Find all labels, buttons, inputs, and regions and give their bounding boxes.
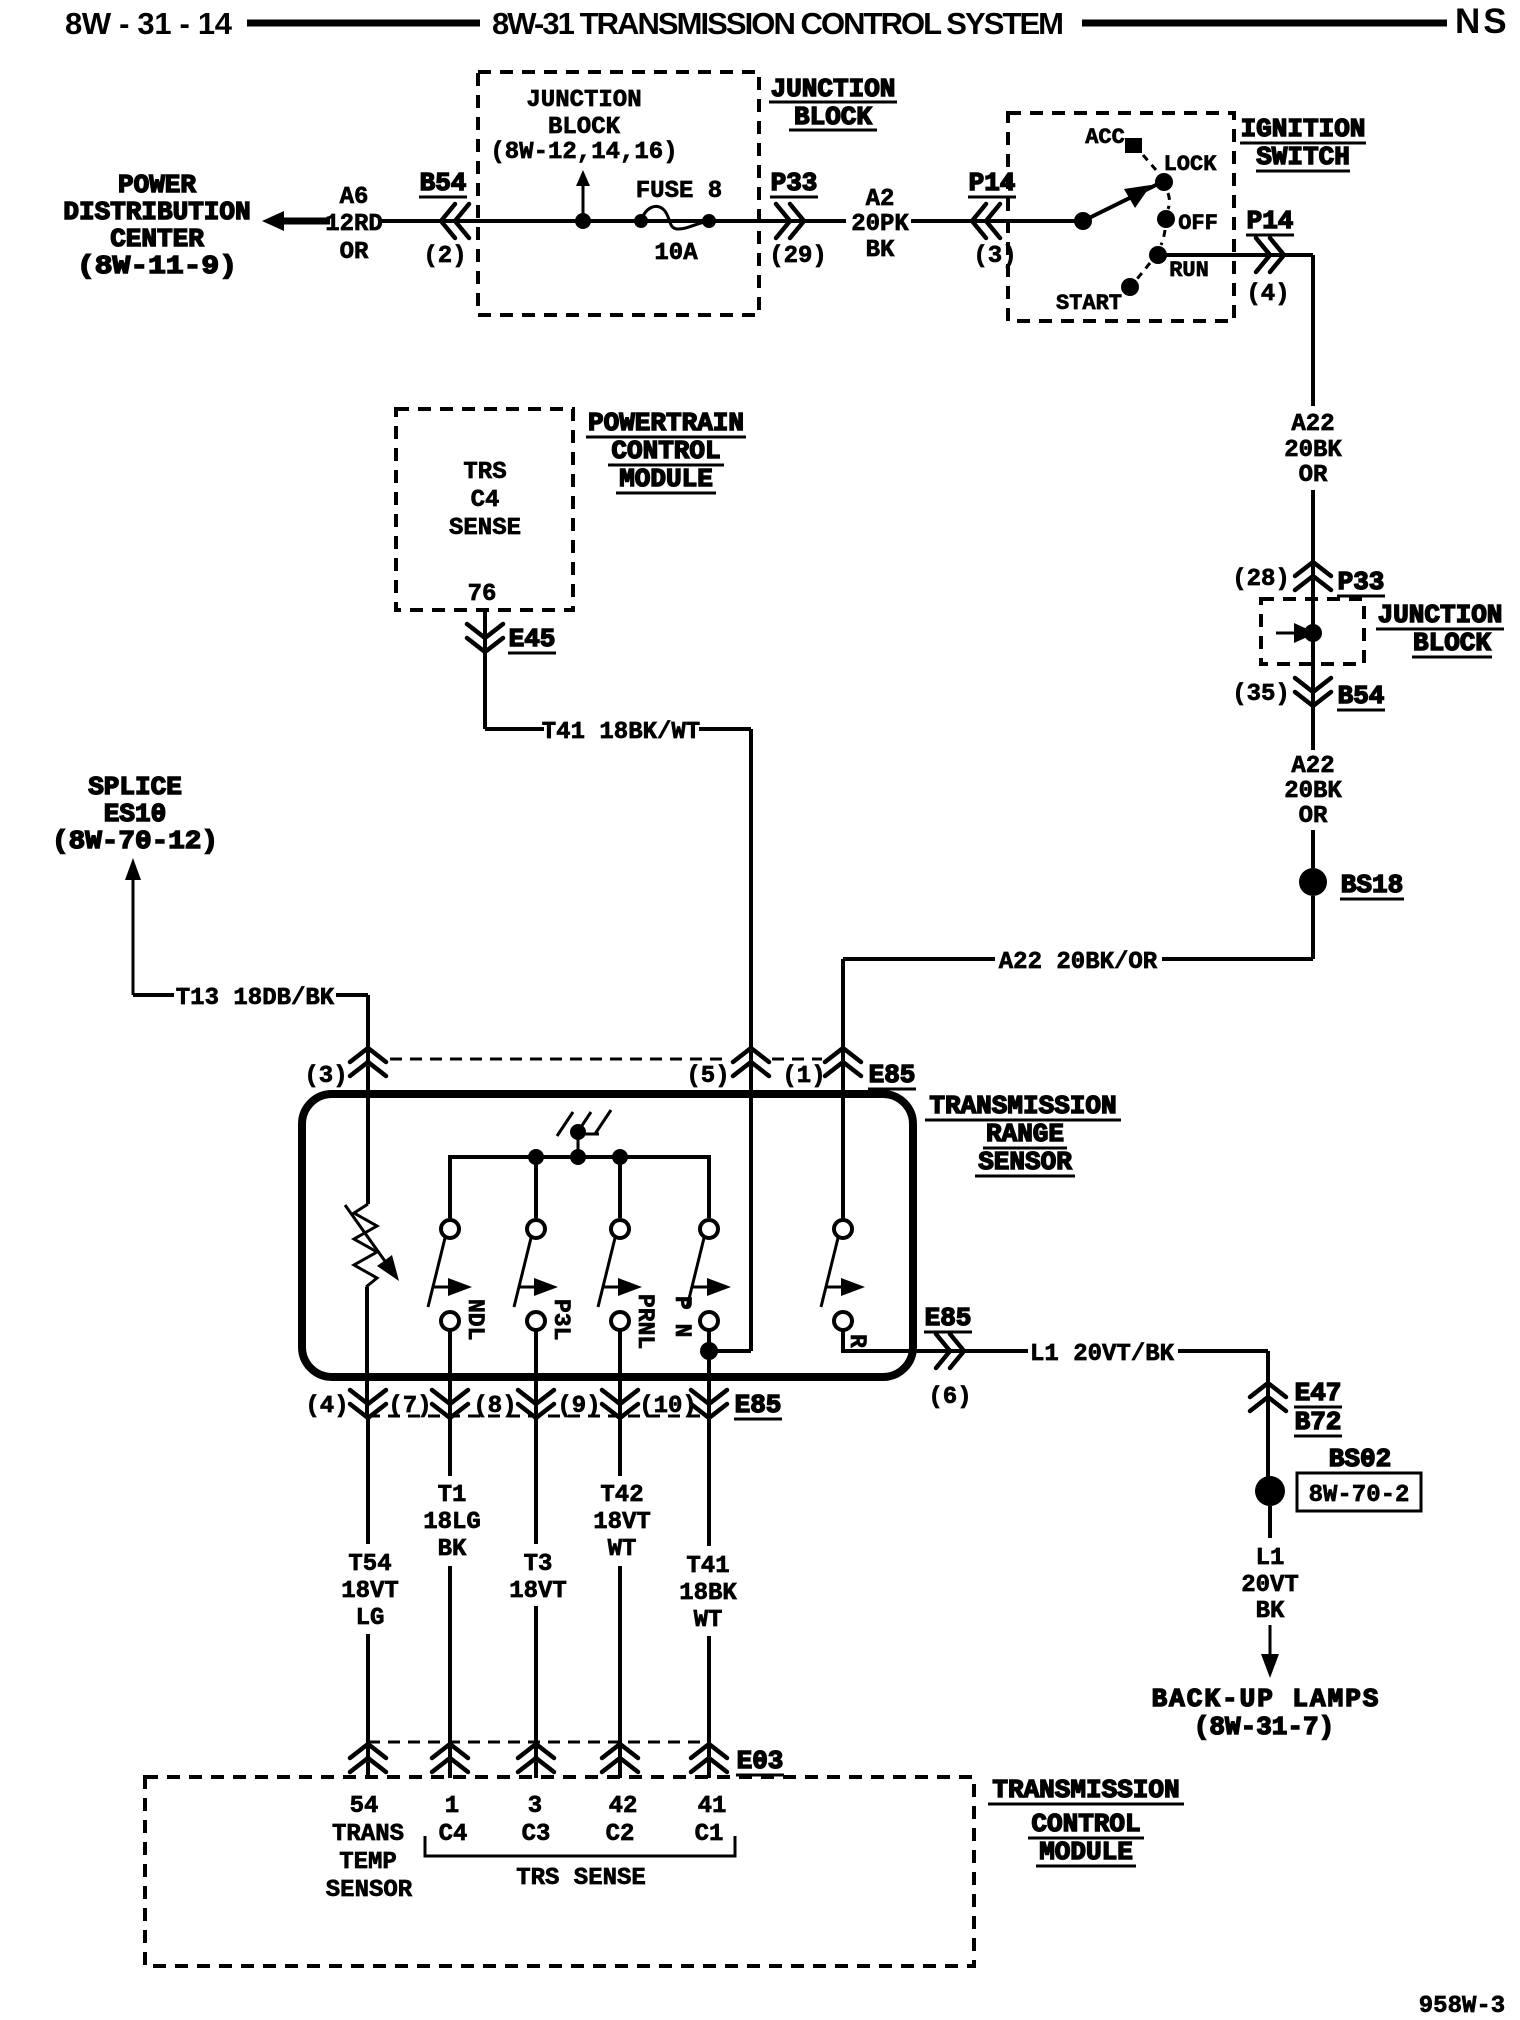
connector E85 pin 3 [304, 1048, 386, 1090]
svg-text:1: 1 [445, 1793, 459, 1820]
bus wire inside TRS [450, 1149, 709, 1218]
svg-text:L1: L1 [1256, 1545, 1285, 1572]
wire A6 12RD/OR top feed [288, 184, 1086, 266]
svg-text:BK: BK [1256, 1598, 1285, 1625]
svg-text:DISTRIBUTION: DISTRIBUTION [63, 197, 250, 227]
heading TRANSMISSION RANGE SENSOR [925, 1091, 1121, 1177]
svg-text:(8W-31-7): (8W-31-7) [1194, 1712, 1334, 1742]
wire T3 18VT [509, 1418, 567, 1778]
svg-text:20BK: 20BK [1284, 437, 1342, 464]
svg-text:A22: A22 [1291, 411, 1334, 438]
svg-text:E85: E85 [869, 1060, 916, 1090]
svg-text:T1: T1 [438, 1482, 467, 1509]
svg-text:8W-31 TRANSMISSION CONTROL SYS: 8W-31 TRANSMISSION CONTROL SYSTEM [492, 6, 1064, 41]
svg-text:OFF: OFF [1178, 211, 1218, 236]
header rule left [247, 20, 480, 27]
svg-text:T3: T3 [524, 1551, 553, 1578]
node: junction arrow up (feed to other circuits) [575, 170, 591, 229]
svg-text:WT: WT [694, 1607, 723, 1634]
svg-text:POWER: POWER [118, 170, 196, 200]
svg-text:A22: A22 [1291, 753, 1334, 780]
svg-text:E03: E03 [737, 1746, 784, 1776]
transmission control module dashed box [145, 1777, 974, 1966]
fuse F8 10A [634, 178, 722, 267]
svg-text:SENSOR: SENSOR [978, 1147, 1072, 1177]
svg-text:E47: E47 [1295, 1378, 1342, 1408]
svg-text:NS: NS [1455, 2, 1510, 41]
svg-text:BACK-UP LAMPS: BACK-UP LAMPS [1152, 1684, 1381, 1714]
svg-text:(8): (8) [473, 1393, 516, 1420]
svg-text:18VT: 18VT [509, 1578, 567, 1605]
splice BS02 with reference box 8W-70-2 [1255, 1411, 1421, 1511]
svg-text:OR: OR [1299, 462, 1328, 489]
svg-text:LOCK: LOCK [1164, 152, 1218, 177]
ground (case ground inside TRS) [557, 1110, 611, 1157]
svg-text:RUN: RUN [1169, 258, 1209, 283]
connector E85 pin 5 [686, 1048, 769, 1090]
TCM pins 1 3 42 41 TRS SENSE [425, 1793, 735, 1892]
svg-text:3: 3 [528, 1793, 542, 1820]
svg-text:E85: E85 [925, 1303, 972, 1333]
svg-text:B54: B54 [1338, 681, 1385, 711]
heading POWERTRAIN CONTROL MODULE [586, 408, 746, 494]
dashed connector line E85 top row [390, 1058, 729, 1061]
svg-text:(3): (3) [973, 243, 1016, 270]
svg-text:BK: BK [438, 1536, 467, 1563]
svg-text:C1: C1 [695, 1821, 724, 1848]
PCM pin 76 TRS C4 SENSE [449, 459, 521, 608]
svg-text:(6): (6) [928, 1384, 971, 1411]
svg-text:CONTROL: CONTROL [1031, 1809, 1140, 1839]
svg-text:(1): (1) [782, 1063, 825, 1090]
svg-text:JUNCTION: JUNCTION [526, 87, 641, 114]
heading IGNITION SWITCH [1240, 114, 1366, 172]
wire L1 20VT/BK [966, 1341, 1268, 1412]
svg-text:54: 54 [350, 1793, 379, 1820]
svg-text:SENSOR: SENSOR [326, 1877, 413, 1904]
ignition switch dashed box [1008, 113, 1234, 321]
wire T42 18VT/WT [593, 1418, 651, 1778]
svg-text:BS02: BS02 [1329, 1444, 1391, 1474]
wire RUN output [1158, 253, 1313, 257]
connector E85 pin 6 [924, 1303, 972, 1411]
svg-text:C4: C4 [439, 1821, 468, 1848]
wire T41 18BK/WT (to TCM pin41) [679, 1418, 737, 1778]
connector P14 pin 3 [968, 168, 1017, 270]
svg-text:TEMP: TEMP [339, 1849, 397, 1876]
svg-text:LG: LG [356, 1605, 385, 1632]
svg-text:E45: E45 [509, 624, 556, 654]
svg-text:RANGE: RANGE [986, 1119, 1064, 1149]
connector E85 pin 1 [782, 1048, 916, 1090]
svg-text:P33: P33 [771, 168, 818, 198]
svg-text:MODULE: MODULE [1039, 1837, 1133, 1867]
svg-text:R: R [844, 1334, 870, 1348]
svg-text:TRANSMISSION: TRANSMISSION [992, 1775, 1179, 1805]
heading JUNCTION BLOCK (right) [1376, 600, 1504, 658]
wire L1 20VT BK to back-up lamps [1241, 1506, 1299, 1678]
connector B54 pin 35 [1232, 678, 1385, 711]
splice ES10 heading and arrow [52, 772, 218, 995]
svg-text:(35): (35) [1232, 681, 1290, 708]
svg-text:P3L: P3L [548, 1299, 574, 1340]
switch P3L [514, 1220, 574, 1418]
splice BS18 [1299, 868, 1404, 900]
svg-text:A2: A2 [866, 186, 895, 213]
svg-text:T41: T41 [686, 1553, 729, 1580]
svg-text:B72: B72 [1295, 1407, 1342, 1437]
svg-text:L1 20VT/BK: L1 20VT/BK [1030, 1341, 1175, 1368]
svg-text:START: START [1056, 291, 1122, 316]
svg-text:TRANSMISSION: TRANSMISSION [929, 1091, 1116, 1121]
connector E45 [467, 610, 556, 654]
svg-text:12RD: 12RD [325, 211, 383, 238]
svg-text:(10): (10) [639, 1393, 697, 1420]
wire A2 20PK/BK [851, 186, 909, 264]
connector B54 pin 2 [419, 168, 469, 270]
node: BACK-UP LAMPS (8W-31-7) [1152, 1684, 1381, 1742]
svg-text:(2): (2) [423, 243, 466, 270]
connector P33 pin 28 [1232, 562, 1385, 597]
svg-text:BLOCK: BLOCK [794, 102, 872, 132]
svg-text:(5): (5) [686, 1063, 729, 1090]
svg-text:CONTROL: CONTROL [611, 436, 720, 466]
svg-text:(8W-11-9): (8W-11-9) [77, 251, 237, 281]
svg-text:T42: T42 [600, 1482, 643, 1509]
svg-text:P14: P14 [1247, 206, 1294, 236]
TCM pin 54 TRANS TEMP SENSOR [326, 1793, 413, 1904]
wire A22 20BK/OR horizontal run to TRS [843, 896, 1313, 1078]
svg-text:(8W-70-12): (8W-70-12) [52, 826, 218, 856]
svg-text:B54: B54 [420, 168, 467, 198]
svg-text:SWITCH: SWITCH [1256, 142, 1350, 172]
svg-text:BK: BK [866, 237, 895, 264]
switch NDL [428, 1218, 488, 1418]
svg-text:958W-3: 958W-3 [1419, 1993, 1505, 2020]
svg-text:P N: P N [669, 1296, 695, 1337]
switch R [821, 1078, 1028, 1351]
svg-text:8W-70-2: 8W-70-2 [1309, 1482, 1410, 1509]
svg-text:NDL: NDL [462, 1299, 488, 1340]
svg-text:20VT: 20VT [1241, 1572, 1299, 1599]
svg-text:76: 76 [468, 581, 497, 608]
svg-text:ES10: ES10 [104, 799, 166, 829]
svg-text:A22 20BK/OR: A22 20BK/OR [999, 949, 1158, 976]
svg-text:18VT: 18VT [593, 1509, 651, 1536]
svg-text:42: 42 [609, 1793, 638, 1820]
svg-text:POWERTRAIN: POWERTRAIN [588, 408, 744, 438]
powertrain control module dashed box [396, 409, 573, 610]
svg-text:8W - 31 - 14: 8W - 31 - 14 [65, 6, 233, 41]
connector E03 (5 pins) [350, 1742, 784, 1776]
svg-text:10A: 10A [654, 240, 698, 267]
connector E85 pins 4 7 8 9 10 (bottom row) [305, 1390, 782, 1420]
svg-text:18VT: 18VT [341, 1578, 399, 1605]
transmission range sensor box [302, 1094, 913, 1377]
svg-text:20PK: 20PK [851, 211, 909, 238]
svg-text:WT: WT [608, 1536, 637, 1563]
wire T54 18VT/LG (TRS pin4 to TCM pin54) [341, 1418, 399, 1778]
switch PRNL [598, 1220, 658, 1418]
wire T13 18DB/BK to TRS pin 3 [133, 985, 368, 1078]
svg-text:18BK: 18BK [679, 1580, 737, 1607]
svg-text:SPLICE: SPLICE [88, 772, 182, 802]
svg-text:TRANS: TRANS [332, 1821, 404, 1848]
svg-text:(9): (9) [557, 1393, 600, 1420]
junction block pass-through (right) [1261, 590, 1364, 674]
svg-text:TRS SENSE: TRS SENSE [516, 1865, 646, 1892]
switch P N [669, 1220, 731, 1418]
svg-text:BLOCK: BLOCK [1413, 628, 1491, 658]
node: POWER DISTRIBUTION CENTER (8W-11-9) [63, 170, 330, 281]
svg-text:T41 18BK/WT: T41 18BK/WT [542, 719, 700, 746]
label JUNCTION BLOCK (8W-12,14,16) [490, 87, 677, 166]
svg-text:ACC: ACC [1085, 125, 1125, 150]
connector P33 pin 29 [769, 168, 827, 270]
svg-text:A6: A6 [340, 184, 369, 211]
svg-text:OR: OR [1299, 803, 1328, 830]
wire A22 20BK/OR upper vertical [1284, 255, 1342, 750]
svg-text:(3): (3) [304, 1063, 347, 1090]
svg-text:CENTER: CENTER [110, 224, 204, 254]
svg-text:C2: C2 [606, 1821, 635, 1848]
svg-text:E85: E85 [735, 1390, 782, 1420]
svg-text:C4: C4 [471, 487, 500, 514]
connector E47 / B72 [1250, 1378, 1342, 1437]
heading JUNCTION BLOCK [769, 74, 897, 132]
thermistor (trans temp sensor element) [345, 1048, 399, 1418]
junction block (fuse box) dashed outline [478, 72, 759, 315]
svg-text:18LG: 18LG [423, 1509, 481, 1536]
svg-text:IGNITION: IGNITION [1241, 114, 1366, 144]
wire A22 20BK/OR lower vertical [1284, 706, 1342, 868]
header rule right [1082, 20, 1447, 27]
svg-text:20BK: 20BK [1284, 778, 1342, 805]
svg-text:JUNCTION: JUNCTION [1378, 600, 1503, 630]
wire T41 18BK/WT from PCM to TRS pin 5 [485, 652, 751, 1351]
svg-text:BS18: BS18 [1341, 870, 1403, 900]
svg-text:(4): (4) [1246, 281, 1289, 308]
svg-text:(29): (29) [769, 243, 827, 270]
svg-text:(8W-12,14,16): (8W-12,14,16) [490, 139, 677, 166]
svg-text:JUNCTION: JUNCTION [771, 74, 896, 104]
svg-text:T54: T54 [348, 1551, 391, 1578]
node: P-N junction to PCM sense wire [700, 1342, 751, 1360]
svg-text:T13 18DB/BK: T13 18DB/BK [176, 985, 335, 1012]
svg-text:TRS: TRS [463, 459, 506, 486]
svg-text:MODULE: MODULE [619, 464, 713, 494]
svg-text:SENSE: SENSE [449, 515, 521, 542]
svg-text:P33: P33 [1338, 567, 1385, 597]
heading TRANSMISSION CONTROL MODULE [988, 1775, 1184, 1867]
connector P14 pin 4 [1246, 206, 1294, 308]
svg-text:FUSE 8: FUSE 8 [636, 178, 722, 205]
svg-text:C3: C3 [522, 1821, 551, 1848]
svg-text:41: 41 [698, 1793, 727, 1820]
svg-text:PRNL: PRNL [632, 1294, 658, 1349]
svg-text:BLOCK: BLOCK [548, 114, 621, 141]
svg-text:(28): (28) [1232, 566, 1290, 593]
wire T1 18LG/BK [423, 1418, 481, 1778]
ignition switch S1 contacts and blade [1056, 125, 1218, 316]
svg-text:(7): (7) [388, 1393, 431, 1420]
svg-text:OR: OR [340, 239, 369, 266]
svg-text:(4): (4) [305, 1393, 348, 1420]
